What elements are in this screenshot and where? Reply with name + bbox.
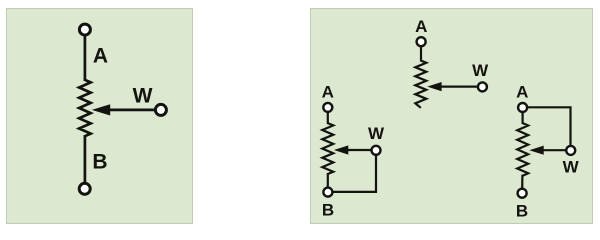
pot1 wire wiper W bbox=[438, 85, 479, 87]
pot2 wire wiper W bbox=[345, 149, 372, 151]
svg-text:B: B bbox=[516, 201, 528, 220]
svg-text:A: A bbox=[516, 83, 528, 102]
pot2 resistor element bbox=[322, 123, 333, 174]
svg-text:W: W bbox=[563, 158, 580, 177]
pot2 wire resistor to B bbox=[327, 173, 329, 189]
pot2 wiper arrow bbox=[334, 145, 348, 154]
pot1 wire A to resistor bbox=[420, 45, 422, 62]
pot2 terminal A bbox=[323, 103, 332, 112]
pot3 wire A to W terminal bbox=[527, 107, 571, 146]
terminal A bbox=[79, 24, 90, 35]
svg-text:A: A bbox=[415, 17, 427, 36]
pot3 wire wiper W bbox=[540, 149, 567, 151]
resistor element (potentiometer track) bbox=[79, 80, 91, 136]
pot1 terminal W bbox=[478, 82, 487, 91]
wire A terminal to resistor bbox=[84, 34, 87, 81]
pot3 terminal W bbox=[566, 146, 575, 155]
terminal W bbox=[155, 104, 166, 115]
terminal B bbox=[79, 183, 90, 194]
svg-text:B: B bbox=[92, 150, 107, 173]
svg-text:W: W bbox=[133, 85, 153, 108]
svg-text:W: W bbox=[472, 61, 489, 80]
pot1 terminal A bbox=[417, 37, 426, 46]
svg-text:B: B bbox=[322, 201, 334, 220]
pot2 wire W to B junction bbox=[333, 154, 377, 192]
pot3 wire resistor to B bbox=[521, 175, 523, 190]
svg-text:A: A bbox=[93, 44, 108, 67]
left panel: potentiometer symbol bbox=[6, 8, 193, 224]
pot3 terminal A bbox=[518, 103, 527, 112]
wire resistor to B terminal bbox=[84, 135, 87, 184]
pot3 terminal B bbox=[518, 189, 527, 198]
pot3 wire A to resistor bbox=[521, 111, 523, 124]
svg-text:A: A bbox=[322, 83, 334, 102]
pot2 terminal B bbox=[323, 188, 332, 197]
pot1 wiper arrow bbox=[427, 82, 441, 91]
pot3 resistor element bbox=[517, 123, 528, 176]
pot3 wiper arrow bbox=[529, 146, 543, 155]
svg-text:W: W bbox=[368, 124, 385, 143]
wiper arrow bbox=[92, 104, 110, 115]
wire wiper W bbox=[106, 109, 157, 112]
pot1 resistor element bbox=[415, 61, 426, 108]
pot2 wire A to resistor bbox=[327, 111, 329, 124]
right panel: rheostat connections bbox=[310, 8, 593, 224]
pot2 terminal W bbox=[372, 146, 381, 155]
